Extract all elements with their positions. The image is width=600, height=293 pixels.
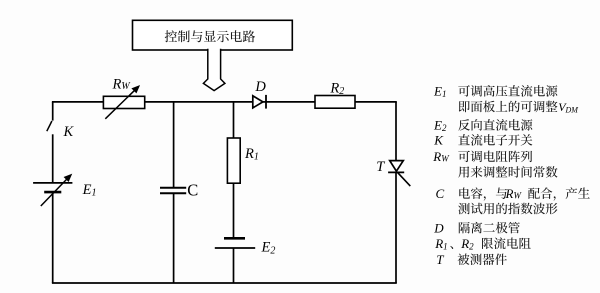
svg-text:K: K [433, 133, 444, 148]
svg-text:E1: E1 [82, 182, 97, 199]
svg-text:RW: RW [505, 186, 523, 201]
svg-text:C: C [436, 186, 445, 201]
svg-text:D: D [433, 220, 444, 235]
svg-text:VDM: VDM [558, 100, 579, 114]
svg-text:E2: E2 [433, 118, 447, 134]
svg-text:R1: R1 [244, 146, 259, 163]
svg-text:R1: R1 [434, 236, 447, 252]
svg-text:T: T [436, 252, 444, 267]
svg-text:E2: E2 [261, 240, 276, 257]
svg-text:RW: RW [112, 77, 132, 93]
svg-text:K: K [63, 124, 75, 140]
svg-text:R2: R2 [329, 80, 344, 97]
svg-text:T: T [376, 159, 385, 175]
svg-text:R2: R2 [460, 236, 474, 252]
svg-text:D: D [254, 79, 266, 95]
svg-text:RW: RW [432, 149, 450, 164]
svg-text:E1: E1 [433, 84, 446, 100]
svg-text:C: C [187, 181, 198, 200]
